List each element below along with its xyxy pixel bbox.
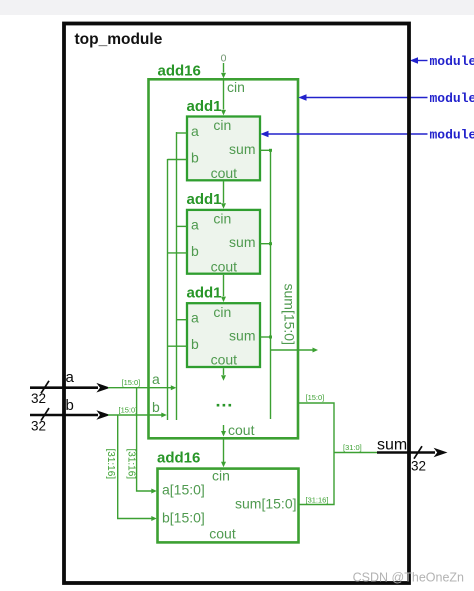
net label [31:16] (a branch, vertical) <box>126 449 137 480</box>
wire cin chain (0 -> add16.cin) <box>221 63 226 78</box>
blue annotation text 3 <box>430 128 474 143</box>
port label b (add1 #2) <box>191 243 199 259</box>
svg-text:a: a <box>191 216 199 232</box>
label add16 (upper) <box>158 63 201 80</box>
net label [31:0] <box>343 443 362 452</box>
ellipsis dots (hidden add1 instances) <box>217 404 231 407</box>
svg-text:cin: cin <box>213 117 231 133</box>
svg-text:a: a <box>191 310 199 326</box>
wire bus a (vertical inside add16) <box>176 132 178 420</box>
module box add1 (second) <box>187 210 260 274</box>
wire sum stub add1#2 <box>260 242 272 245</box>
svg-text:module: module <box>430 54 474 69</box>
label 32 (input a) <box>31 391 46 406</box>
net label [31:16] (b branch, vertical) <box>105 449 116 480</box>
label sum (black) <box>377 436 407 453</box>
svg-text:[31:16]: [31:16] <box>306 496 329 505</box>
svg-text:32: 32 <box>31 391 46 406</box>
label top_module <box>75 31 163 48</box>
svg-text:module: module <box>430 128 474 143</box>
blue annotation arrow 3 (to add1) <box>260 131 427 137</box>
svg-text:b: b <box>191 243 199 259</box>
wire cout#3 -> hidden adders <box>221 368 226 381</box>
wire sum stub add1#3 <box>260 336 272 339</box>
wire b stub add1#1 <box>168 159 188 161</box>
input b black line <box>30 410 110 420</box>
port label cin (upper add16) <box>227 79 245 95</box>
wire a[31:16] branch down to lower add16 <box>137 388 157 494</box>
label b (black) <box>66 397 74 414</box>
svg-text:0: 0 <box>221 53 227 65</box>
net label [15:0] (sum upper) <box>306 393 325 402</box>
wire sum[15:0] upper add16 -> riser <box>299 403 335 505</box>
wire cout#1 -> cin#2 <box>221 182 226 209</box>
svg-text:CSDN @TheOneZn: CSDN @TheOneZn <box>353 571 464 585</box>
svg-text:32: 32 <box>411 459 426 474</box>
svg-text:sum: sum <box>229 234 255 250</box>
port label b[15:0] (lower add16) <box>162 510 205 526</box>
port label a (add1 #2) <box>191 216 199 232</box>
svg-text:sum: sum <box>229 141 255 157</box>
blue annotation arrow 2 (to upper add16) <box>298 94 427 100</box>
label b (green, inside add16) <box>152 399 160 415</box>
wire a stub add1#3 <box>177 319 188 321</box>
label a (green, inside add16) <box>152 371 160 387</box>
label a (black) <box>66 369 75 386</box>
slash width mark a <box>41 381 49 394</box>
svg-text:cout: cout <box>211 352 238 368</box>
svg-text:a[15:0]: a[15:0] <box>162 482 205 498</box>
port label a[15:0] (lower add16) <box>162 482 205 498</box>
port label cout (upper add16) <box>228 422 255 438</box>
wire b stub add1#2 <box>168 252 188 254</box>
svg-text:cin: cin <box>227 79 245 95</box>
wire add16.cout -> lower add16.cin <box>221 439 226 467</box>
svg-text:sum[15:0]: sum[15:0] <box>282 284 298 345</box>
port label a (add1 #1) <box>191 123 199 139</box>
wire cin (add16 edge -> add1#1.cin) <box>221 80 226 115</box>
wire bus b (vertical inside add16) <box>167 159 169 420</box>
port label b (add1 #3) <box>191 336 199 352</box>
svg-text:cout: cout <box>211 165 238 181</box>
module box add16 (lower) <box>158 469 299 543</box>
wire a stub add1#2 <box>177 225 188 227</box>
svg-text:[15:0]: [15:0] <box>306 393 325 402</box>
svg-text:sum: sum <box>377 436 407 453</box>
watermark <box>353 571 464 585</box>
svg-text:sum[15:0]: sum[15:0] <box>235 496 296 512</box>
svg-text:b: b <box>152 399 160 415</box>
wire hidden adders -> add16.cout port <box>221 425 226 437</box>
wire b[31:16] branch down to lower add16 <box>118 415 157 521</box>
port label b (add1 #1) <box>191 150 199 166</box>
wire final sum out (green part) <box>334 452 378 454</box>
wire b green (arrow tip -> b bus) <box>108 413 167 418</box>
label add16 (lower) <box>157 450 200 467</box>
svg-text:b: b <box>66 397 74 414</box>
svg-text:cout: cout <box>209 526 236 542</box>
wire b stub add1#3 <box>168 345 188 347</box>
slash width mark b <box>41 408 49 421</box>
svg-text:cout: cout <box>228 422 255 438</box>
svg-text:add16: add16 <box>158 63 201 80</box>
blue annotation text 2 <box>430 91 474 106</box>
label add1 (third) <box>187 285 222 302</box>
label 32 (input b) <box>31 419 46 434</box>
port label sum (add1 #3) <box>229 328 255 344</box>
port label cout (add1 #1) <box>211 165 238 181</box>
net label [15:0] (b) <box>119 406 138 415</box>
svg-text:add1: add1 <box>187 98 222 115</box>
wire sum[15:0] exit arrow (crosses add16 right edge) <box>271 348 319 353</box>
svg-text:add16: add16 <box>157 450 200 467</box>
svg-text:module: module <box>430 91 474 106</box>
blue annotation text 1 <box>430 54 474 69</box>
wire a stub add1#1 <box>177 132 188 134</box>
svg-text:cin: cin <box>213 304 231 320</box>
node constant 0 <box>221 53 227 65</box>
svg-text:cin: cin <box>212 468 230 484</box>
svg-text:32: 32 <box>31 419 46 434</box>
wire cout#2 -> cin#3 <box>221 275 226 302</box>
svg-text:a: a <box>66 369 75 386</box>
input a black line <box>30 383 110 393</box>
port label cin (add1 #1) <box>213 117 231 133</box>
svg-text:cout: cout <box>211 258 238 274</box>
port label sum (add1 #2) <box>229 234 255 250</box>
blue annotation arrow 1 (to top_module) <box>410 57 428 63</box>
svg-text:add1: add1 <box>187 285 222 302</box>
wire sum stub add1#1 <box>260 149 272 152</box>
svg-text:a: a <box>191 123 199 139</box>
port label cout (add1 #2) <box>211 258 238 274</box>
wire a green (arrow tip -> a bus) <box>108 385 176 390</box>
net label [31:16] (sum lower) <box>306 496 329 505</box>
svg-text:b: b <box>191 336 199 352</box>
module box add1 (first) <box>187 117 260 181</box>
svg-text:[15:0]: [15:0] <box>122 378 141 387</box>
svg-text:[31:0]: [31:0] <box>343 443 362 452</box>
top gray scrollbar bar <box>0 0 474 15</box>
output sum black line <box>377 448 448 458</box>
svg-text:sum: sum <box>229 328 255 344</box>
port label cout (add1 #3) <box>211 352 238 368</box>
svg-text:[31:16]: [31:16] <box>126 449 137 480</box>
port label sum[15:0] (upper add16, vertical) <box>282 284 298 345</box>
svg-text:b[15:0]: b[15:0] <box>162 510 205 526</box>
module box top_module <box>64 24 409 584</box>
label add1 (second) <box>187 191 222 208</box>
svg-text:cin: cin <box>213 211 231 227</box>
port label cin (lower add16) <box>212 468 230 484</box>
port label cin (add1 #2) <box>213 211 231 227</box>
svg-text:top_module: top_module <box>75 31 163 48</box>
slash width mark sum <box>414 446 422 459</box>
port label a (add1 #3) <box>191 310 199 326</box>
wire bus sum (vertical) <box>270 150 272 419</box>
port label cin (add1 #3) <box>213 304 231 320</box>
label 32 (output) <box>411 459 426 474</box>
port label sum (add1 #1) <box>229 141 255 157</box>
svg-text:b: b <box>191 150 199 166</box>
port label cout (lower add16) <box>209 526 236 542</box>
svg-text:[15:0]: [15:0] <box>119 406 138 415</box>
module box add16 (upper) <box>149 79 299 438</box>
module box add1 (third) <box>187 303 260 367</box>
label add1 (first) <box>187 98 222 115</box>
svg-text:a: a <box>152 371 160 387</box>
port label sum[15:0] (lower add16) <box>235 496 296 512</box>
svg-text:add1: add1 <box>187 191 222 208</box>
net label [15:0] (a) <box>122 378 141 387</box>
svg-text:[31:16]: [31:16] <box>105 449 116 480</box>
